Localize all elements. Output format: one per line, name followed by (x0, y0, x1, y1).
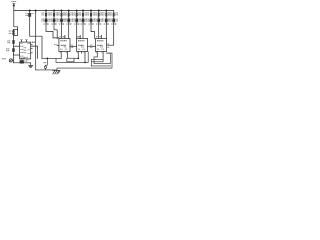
wire bottom bus C (56, 52, 88, 63)
routing loop B (67, 58, 74, 62)
LED L6 (67, 18, 70, 22)
wire c4 jog to IC2 (54, 23, 57, 39)
U3 top corner label (77, 36, 78, 37)
wire chain (13, 30, 15, 43)
supply terminal +V (13, 3, 15, 10)
LED L12 (112, 18, 115, 22)
resistor R11 (105, 11, 107, 24)
labels L11 (102, 18, 103, 21)
label near U1 right (32, 42, 34, 43)
LED L3 (45, 18, 48, 22)
U4 pin number rows (97, 40, 98, 41)
IC U4 bottom pins (96, 52, 98, 57)
wire c8 (82, 23, 84, 39)
U2 pin number rows (60, 40, 61, 41)
U1 pin labels (19, 42, 22, 45)
LED L7 (75, 18, 78, 22)
node c4 (53, 10, 55, 12)
wire U3 carry to U4 (88, 45, 96, 47)
wire bus E2 (91, 62, 93, 66)
labels L8 (78, 18, 79, 21)
wire chain to IC1 pin 2 (14, 54, 20, 56)
node bus junctions (78, 58, 80, 60)
IC U2 extra top pin (64, 35, 66, 38)
U3 pin number rows (78, 40, 79, 41)
IC U4 (96, 39, 107, 52)
trimmer capacitor C3 (9, 59, 12, 62)
wire c9 jog to IC4 (91, 23, 95, 39)
wire c5 (61, 23, 63, 39)
IC U1 top pins (21, 40, 23, 42)
node c5 (61, 10, 63, 12)
node switch junction (46, 58, 48, 60)
node c10 (98, 10, 100, 12)
label R2 (7, 39, 8, 42)
wire c6 (68, 23, 70, 39)
wire c12 to IC4 right pin (107, 23, 114, 45)
label X1 (19, 57, 21, 60)
labels R6 (64, 12, 65, 15)
labels L9 (86, 18, 87, 21)
resistor R12 (113, 11, 115, 24)
resistor R6 (68, 11, 70, 24)
labels L7 (72, 18, 73, 21)
IC U2 left pin (57, 44, 59, 46)
ground G1 (29, 63, 33, 68)
resistor R5 (61, 11, 63, 24)
node c2 (35, 10, 37, 12)
wire c1 to bottom (30, 36, 42, 58)
IC U2 (59, 39, 70, 52)
wire c3 to IC2 (46, 23, 59, 38)
labels R9 (86, 12, 87, 15)
diode D2 (12, 33, 14, 35)
switch S1 (44, 66, 46, 68)
staple under U4 (94, 53, 110, 63)
resistor R9 (90, 11, 92, 24)
wire U2 carry to U3 (70, 45, 77, 47)
resistor R1 feedback loop (14, 30, 18, 36)
resistor R4 (53, 11, 55, 24)
resistor R2 (12, 40, 14, 44)
labels L5 (57, 18, 58, 21)
node c3 (45, 10, 47, 12)
IC U4 extra top pin (101, 35, 103, 38)
crystal X1 (20, 60, 24, 63)
wire c10 (98, 23, 100, 39)
label C1 (26, 12, 27, 15)
U4 right pin labels (107, 43, 109, 46)
resistor R10 (98, 11, 100, 24)
labels L12 (109, 18, 110, 21)
wire chain to IC1 pin (13, 42, 15, 55)
wire: top supply rail (14, 10, 114, 12)
labels R10 (94, 12, 95, 15)
IC U2 bottom pins (60, 52, 62, 59)
labels R12 (109, 12, 110, 15)
wire crystal net (14, 62, 31, 64)
wire c2 down to bottom rail (35, 11, 37, 70)
resistor R3 (45, 11, 47, 24)
labels R8 (78, 12, 79, 15)
wire bottom rail (36, 69, 57, 71)
ground G2 (hatched) (52, 70, 60, 74)
U1 bottom pin labels (21, 59, 29, 62)
routing loop D (92, 59, 104, 62)
IC U1 right pins (31, 43, 33, 45)
diode D1 (12, 30, 14, 32)
wire c11 (105, 23, 107, 39)
IC U1 (20, 42, 31, 59)
labels D1 D2 (9, 30, 10, 33)
wire bottom bus A (42, 57, 61, 59)
labels R5 (57, 12, 58, 15)
LED L5 (60, 18, 63, 22)
node c9 (90, 10, 92, 12)
wire switch drop (45, 58, 47, 66)
capacitor C1 (28, 11, 31, 37)
node c1 (29, 10, 31, 12)
resistor R7 (76, 11, 78, 24)
labels R7 (72, 12, 73, 15)
labels L10 (94, 18, 95, 21)
LED L9 (90, 18, 93, 22)
IC U3 (77, 39, 88, 52)
LED L11 (105, 18, 108, 22)
wire c7 (76, 23, 78, 39)
wire rail drop to oscillator chain (14, 11, 18, 30)
labels L4 (49, 18, 50, 21)
IC U3 extra top pin (79, 35, 81, 38)
capacitor C2 (12, 48, 15, 52)
node c11 (105, 10, 107, 12)
wire bottom bus E (57, 53, 112, 70)
label C2 (6, 47, 7, 50)
resistor R8 (82, 11, 84, 24)
label S1 (43, 61, 44, 64)
wire loop B to U3 pin (74, 57, 78, 59)
labels R4 (49, 12, 50, 15)
node c7 (76, 10, 78, 12)
U2 top corner label (60, 36, 61, 37)
node c6 (68, 10, 70, 12)
labels L3 (41, 18, 42, 21)
LED L4 (53, 18, 56, 22)
U4 top corner label (96, 36, 97, 37)
LED L8 (82, 18, 85, 22)
LED L10 (97, 18, 100, 22)
wire U1 right pin to bottom bus (31, 46, 38, 58)
labels L6 (64, 18, 65, 21)
IC U3 bottom pins (77, 52, 79, 59)
labels R11 (102, 12, 103, 15)
node c8 (82, 10, 84, 12)
labels R3 (41, 12, 42, 15)
label +9V (11, 1, 16, 2)
label C3 (2, 57, 4, 60)
